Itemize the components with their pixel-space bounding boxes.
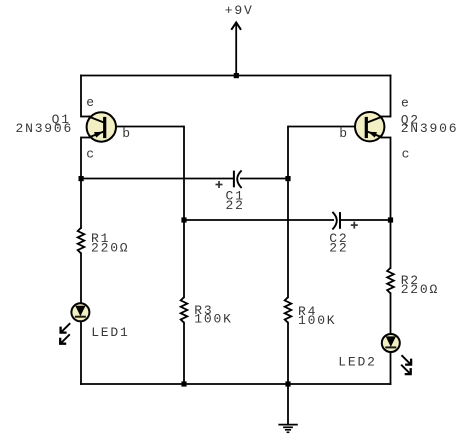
wire node A vertical (Q1 base / R3 / C2 left) <box>183 127 185 298</box>
resistor R3 <box>181 297 188 323</box>
wire R3 to bottom rail <box>183 323 185 384</box>
junction dot C2 left node A <box>181 217 186 222</box>
junction dot C2 right <box>388 217 393 222</box>
wire right rail to Q2 emitter <box>390 76 392 117</box>
resistor R1 <box>78 228 85 254</box>
wire Q1 emitter stub <box>81 116 91 118</box>
wire top V+ rail <box>81 75 391 77</box>
wire Q2 base from node B <box>288 126 366 128</box>
LED2 light arrow 1 <box>402 355 412 364</box>
LED1 <box>71 303 89 321</box>
ground stem <box>287 384 289 424</box>
ground symbol <box>278 425 297 433</box>
wire C2 row from node A <box>184 219 334 221</box>
junction dot bottom node B <box>285 381 290 386</box>
svg-text:e: e <box>86 95 96 110</box>
wire node B vertical (Q2 base / R4 / C1 right) <box>287 127 289 298</box>
svg-text:220Ω: 220Ω <box>401 282 439 297</box>
svg-text:e: e <box>401 95 411 110</box>
svg-text:c: c <box>402 146 412 161</box>
wire C1 row from Q1 collector rail <box>81 178 234 180</box>
resistor R4 <box>285 297 292 323</box>
svg-text:b: b <box>339 126 349 141</box>
wire C1 to node B <box>240 178 288 180</box>
LED2 light arrow 2 <box>401 365 411 374</box>
junction dot C1 left <box>79 176 84 181</box>
wire R4 to bottom rail <box>287 323 289 384</box>
junction dot V+ node <box>234 73 239 78</box>
LED2 <box>382 334 400 352</box>
wire Q1 base to node A <box>106 126 184 128</box>
svg-text:22: 22 <box>329 241 348 256</box>
LED1 light arrow 2 <box>60 334 70 343</box>
label C2 polarity + <box>351 222 358 229</box>
wire C2 to Q2 collector rail <box>340 219 391 221</box>
resistor R2 <box>387 268 394 294</box>
svg-text:100K: 100K <box>194 312 232 327</box>
junction dot bottom node A <box>181 381 186 386</box>
svg-text:+9V: +9V <box>225 3 254 18</box>
wire Q1 collector down to R1 <box>80 138 82 229</box>
wire bottom rail <box>81 383 391 385</box>
capacitor C2 positive plate <box>339 212 341 229</box>
capacitor C2 curved plate <box>332 212 336 230</box>
svg-text:220Ω: 220Ω <box>91 240 129 255</box>
wire Q2 collector stub <box>381 137 391 139</box>
svg-text:LED1: LED1 <box>91 325 129 340</box>
transistor Q2 <box>355 112 384 141</box>
svg-text:2N3906: 2N3906 <box>401 121 459 136</box>
wire left rail to Q1 emitter <box>80 76 82 117</box>
transistor Q1 <box>87 112 116 141</box>
svg-text:b: b <box>122 126 132 141</box>
label C1 polarity + <box>216 181 223 188</box>
junction dot C1 right node B <box>285 176 290 181</box>
capacitor C1 positive plate <box>233 171 235 188</box>
wire Q1 collector stub <box>81 137 91 139</box>
power symbol +9V arrow <box>231 22 241 75</box>
capacitor C1 curved plate <box>237 170 241 188</box>
svg-text:c: c <box>86 147 96 162</box>
wire Q2 collector down to R2 <box>390 138 392 269</box>
LED1 light arrow 1 <box>61 323 71 332</box>
wire R2 to LED2 to bottom rail <box>390 293 392 384</box>
wire Q2 emitter stub <box>381 116 391 118</box>
svg-text:LED2: LED2 <box>338 354 376 369</box>
wire R1 to LED1 to bottom rail <box>80 253 82 384</box>
svg-text:100K: 100K <box>298 313 336 328</box>
svg-text:2N3906: 2N3906 <box>16 121 74 136</box>
svg-text:22: 22 <box>226 198 245 213</box>
